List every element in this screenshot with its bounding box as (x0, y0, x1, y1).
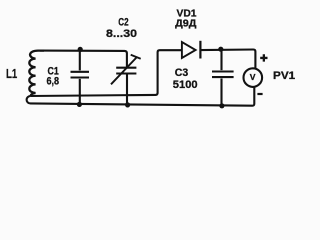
meter PV1 circle (244, 68, 263, 87)
capacitor C2 (trimmer) (116, 68, 136, 105)
plus sign at PV1 (260, 54, 267, 61)
svg-text:C3: C3 (175, 67, 188, 79)
svg-text:Д9Д: Д9Д (175, 18, 197, 30)
svg-text:5100: 5100 (173, 79, 198, 91)
inductor L1 (29, 51, 44, 96)
node dot C3 bottom (219, 103, 224, 108)
diode VD1 cathode bar (199, 41, 201, 59)
diode VD1 triangle (182, 42, 196, 58)
wire bottom rail with left U-bend (27, 87, 255, 106)
wire tank bottom line to diode riser (30, 50, 181, 96)
capacitor C3 (212, 50, 234, 106)
svg-text:V: V (250, 72, 256, 82)
wire top rail (tank top) (40, 51, 127, 67)
svg-text:6,8: 6,8 (47, 75, 60, 87)
node dot C3 top (218, 47, 223, 52)
svg-text:C2: C2 (118, 17, 128, 29)
capacitor C1 (71, 51, 90, 105)
node dot C1 top (78, 47, 83, 52)
svg-text:PV1: PV1 (273, 70, 295, 82)
wire diode cathode to PV1 top (200, 50, 255, 69)
svg-text:L1: L1 (6, 66, 17, 81)
minus sign at PV1 (257, 93, 262, 95)
trimmer arrow of C2 (111, 55, 141, 85)
node dot C1 bottom (77, 102, 82, 107)
node dot C2 bottom (125, 102, 130, 107)
svg-text:8...30: 8...30 (106, 28, 137, 40)
